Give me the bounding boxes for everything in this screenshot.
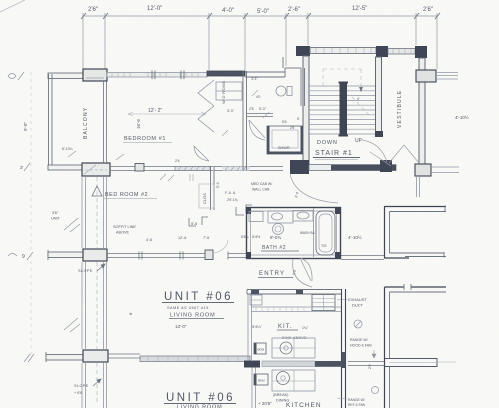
wall oven boxes bbox=[250, 295, 262, 305]
balcony west wall bbox=[49, 74, 53, 165]
stair center rail bbox=[340, 83, 348, 135]
row2 pier bbox=[82, 163, 110, 176]
left margin dim line bbox=[30, 72, 32, 360]
row3 door gap arc bbox=[214, 240, 228, 253]
sink circle lower bbox=[277, 372, 290, 385]
hall wall corner going south bbox=[211, 166, 215, 210]
party wall x104 lower spans bbox=[104, 177, 107, 408]
wardrobe shelf box bbox=[216, 82, 242, 100]
row4 pier bbox=[83, 350, 108, 362]
stair top-left pier bbox=[296, 46, 310, 56]
balcony top wall bar bbox=[48, 73, 83, 79]
wall stubs right of mid pier bbox=[436, 73, 458, 80]
stair treads bbox=[309, 86, 375, 134]
row4 window band bbox=[140, 356, 250, 362]
paper speckle bbox=[0, 0, 1, 1]
row3 balcony bar bbox=[48, 252, 83, 258]
bedroom1 door bbox=[194, 146, 209, 161]
BDM box lower bbox=[254, 374, 268, 385]
closet bifold chevrons bbox=[198, 80, 214, 132]
stair bottom-left pier bbox=[290, 160, 309, 174]
shower stall bbox=[267, 126, 303, 154]
stair right wall end cap bbox=[375, 131, 383, 137]
window hatch ticks bbox=[112, 73, 198, 78]
row3 stub to bath2 bbox=[228, 252, 246, 260]
row4 wall segment bbox=[108, 354, 140, 358]
stairwell right wall bbox=[376, 57, 382, 132]
left margin marks row4 bbox=[24, 354, 34, 362]
balcony east edge bbox=[104, 81, 107, 163]
vestibule double door swing bbox=[389, 145, 419, 163]
row3 small pier at hall bbox=[205, 250, 213, 260]
pencil arrows near row3 pier bbox=[64, 218, 80, 332]
pier at balcony/bedroom corner bbox=[83, 69, 107, 81]
kitchen island lower bbox=[272, 370, 315, 391]
circle note bbox=[354, 320, 362, 328]
row3 wall bath2 to roomA bbox=[341, 256, 384, 260]
row2 small pier bbox=[135, 164, 144, 172]
row2 wall to hall bbox=[110, 167, 213, 171]
room B cross wall bar bbox=[385, 358, 438, 367]
bath2 medicine cabinet bbox=[249, 212, 263, 222]
paper corner fold line bbox=[0, 0, 25, 12]
kitchen island upper bbox=[272, 338, 315, 358]
kitchen west wall bbox=[248, 294, 256, 408]
bath1 partition bbox=[247, 114, 273, 117]
row2 wall hall to bath bbox=[214, 167, 283, 171]
entry hall door arc bbox=[290, 174, 338, 203]
dimension tick marks bbox=[81, 13, 440, 19]
dark wardrobe header wall bbox=[207, 71, 245, 76]
row2 window hatch bbox=[175, 167, 210, 171]
wall segment to bath bbox=[245, 57, 301, 77]
vestibule bottom pier bbox=[415, 164, 431, 176]
stair bottom-right pier bbox=[380, 160, 392, 172]
bath2 lavatory counter bbox=[268, 211, 293, 223]
left margin squiggle row1 bbox=[8, 72, 24, 80]
stairwell left wall bbox=[303, 56, 309, 164]
row4 left end cap bbox=[45, 352, 47, 362]
wall stub below vestibule bbox=[417, 176, 420, 197]
row4 balcony bar bbox=[46, 355, 83, 361]
stair bottom wall bbox=[309, 165, 396, 171]
circle note lower bbox=[372, 387, 379, 394]
entry door swings bbox=[293, 258, 312, 287]
cooktop circle bbox=[280, 342, 292, 354]
vestibule top-right pier bbox=[415, 46, 427, 58]
dimension string (top) bbox=[83, 13, 437, 70]
vestibule right wall bbox=[419, 58, 425, 164]
party wall x82 lower spans bbox=[82, 177, 86, 408]
wall stair to vestibule bbox=[388, 49, 415, 55]
window band bedroom1 north bbox=[107, 73, 207, 78]
stair top wall bbox=[310, 48, 376, 54]
bath2 tub bbox=[316, 211, 335, 255]
bath2 second lavatory bbox=[293, 211, 313, 222]
bath1 toilet bbox=[276, 86, 286, 96]
stair top-right pier bbox=[376, 46, 388, 57]
stair door swing bbox=[362, 140, 391, 166]
vestibule mid pier bbox=[416, 70, 436, 82]
roof line dashed x97 bbox=[96, 177, 98, 405]
bath2 toilet bbox=[273, 224, 284, 235]
bath1 door bbox=[249, 120, 265, 140]
counter band bbox=[251, 307, 341, 312]
row3 left end cap bbox=[47, 250, 49, 260]
row3 wall bbox=[107, 252, 205, 260]
kitchen north wall bbox=[247, 290, 341, 295]
bath1 east wall bbox=[301, 68, 305, 106]
balcony bottom bar bbox=[48, 165, 82, 170]
beam brackets bbox=[189, 205, 252, 226]
wardrobe wall bbox=[243, 71, 247, 170]
bath2 partition bbox=[313, 208, 315, 257]
BDM box upper bbox=[254, 343, 266, 354]
refrigerator bbox=[312, 295, 335, 311]
bath2 corner blocks bbox=[246, 207, 251, 214]
kitchen right wall bbox=[342, 289, 346, 408]
stair walk line (dashed) bbox=[323, 69, 371, 117]
wall stubs right of bottom pier bbox=[431, 167, 459, 173]
hall scatter dims bbox=[160, 90, 269, 181]
ceiling symbol triangle bbox=[92, 186, 102, 196]
bath2 outer walls bbox=[247, 208, 341, 259]
row3 pier bbox=[83, 249, 107, 261]
